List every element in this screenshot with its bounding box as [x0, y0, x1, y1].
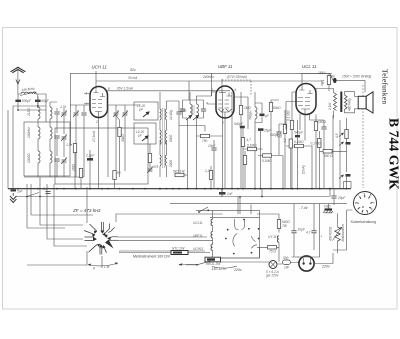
trimmer IF1a — [186, 116, 192, 121]
wire: second bottom bus — [16, 196, 329, 198]
svg-text:J-7e: J-7e — [60, 105, 66, 109]
wire: anode to output — [330, 74, 365, 93]
svg-text:L M: L M — [104, 265, 110, 269]
wire: osc coil column links — [160, 92, 167, 177]
trimmer C5 — [61, 111, 67, 117]
capacitor C18 — [255, 114, 270, 123]
capacitor C23 — [321, 127, 326, 129]
wire: R2 link — [149, 144, 151, 168]
fuse F1 — [283, 256, 291, 270]
inductor osc coil 1a — [160, 109, 161, 120]
capacitor C21 — [208, 140, 217, 189]
wire: UBF left grid — [207, 102, 216, 104]
svg-text:4: 4 — [211, 88, 213, 92]
svg-text:50kΩ: 50kΩ — [273, 106, 281, 110]
wire: second left rail — [12, 106, 14, 189]
svg-text:Entbrummer: Entbrummer — [341, 223, 345, 241]
resistor R16 heater dropper — [171, 247, 188, 255]
wire: osc core dashes — [163, 108, 165, 168]
svg-text:500µF: 500µF — [22, 99, 32, 103]
voltage selector arc right — [252, 236, 258, 248]
wire: speaker leads — [351, 92, 359, 113]
svg-text:Sockelschaltung: Sockelschaltung — [351, 220, 377, 224]
inductor L6 — [50, 151, 52, 163]
svg-text:500 Ω: 500 Ω — [324, 154, 333, 158]
capacitor C29 4.7uF — [306, 204, 323, 250]
socket pins — [357, 195, 373, 212]
wire: 30mA rail — [96, 81, 322, 86]
wire: UCH anode up to rail — [95, 71, 97, 89]
transformer secondary zigzag — [345, 95, 348, 109]
svg-text:4,7: 4,7 — [247, 138, 252, 142]
wire: C23 — [316, 120, 324, 189]
voltage selector arc left — [233, 234, 237, 247]
svg-text:2,2: 2,2 — [204, 169, 210, 173]
resistor R13 — [345, 130, 348, 139]
label: arrow under selector — [212, 266, 237, 268]
svg-text:UBF 11: UBF 11 — [218, 64, 233, 69]
tube UCH11 cathode — [95, 112, 102, 118]
switch: mains blade top — [198, 207, 209, 213]
wire: block frame inner — [55, 128, 148, 184]
tube UCH11 envelope — [90, 87, 108, 118]
capacitor C25 ground — [11, 189, 24, 193]
trimmer C9 — [61, 158, 67, 164]
svg-text:UY 11: UY 11 — [268, 235, 277, 239]
wire: switch routing lower right — [27, 251, 205, 268]
wire: R13 column — [346, 118, 348, 189]
svg-text:400-600Ω: 400-600Ω — [329, 226, 333, 241]
capacitor C16 — [180, 100, 188, 118]
svg-text:2,1W: 2,1W — [328, 102, 332, 111]
tube UCH11 grids — [92, 100, 102, 108]
capacitor C24 540pF — [270, 124, 286, 155]
wire: IF1 top tie — [183, 73, 212, 100]
wire: switch routing upper right — [116, 214, 223, 240]
wire: block bottom ties — [18, 94, 84, 177]
svg-text:220v: 220v — [233, 268, 242, 272]
resistor R1 — [118, 128, 121, 137]
inductor osc coil 2a — [160, 130, 161, 144]
svg-text:Telefunken: Telefunken — [380, 69, 389, 104]
svg-text:10µF: 10µF — [298, 228, 306, 232]
wire: transformer wiring — [316, 89, 351, 119]
node: bus dots — [101, 188, 331, 198]
svg-text:480 Wdg: 480 Wdg — [348, 98, 352, 111]
svg-text:500: 500 — [283, 256, 289, 260]
capacitor C32 540 — [294, 120, 304, 189]
capacitor C31 540pF — [234, 122, 245, 128]
wire: switch routing top — [31, 184, 93, 223]
wire: frame top — [13, 105, 46, 107]
resistor R11 500ohm — [323, 150, 333, 158]
wire: detector coil column — [255, 92, 262, 189]
inductor L2 — [38, 127, 40, 139]
inductor L4 — [50, 107, 52, 119]
capacitor C22 5nF — [330, 75, 337, 84]
svg-text:5kΩ 1W: 5kΩ 1W — [173, 170, 185, 174]
socket: Sockelschaltung circle — [354, 192, 377, 215]
svg-text:REGL 2W: REGL 2W — [206, 262, 221, 266]
resistor R10 — [314, 122, 317, 131]
wire: R6 link — [258, 156, 283, 190]
trimmer mark a — [339, 133, 344, 137]
trimmer C6 — [61, 135, 67, 141]
trimmer C575 — [147, 165, 158, 173]
inductor detector coil — [249, 107, 258, 120]
wire: osc frame upper — [134, 102, 158, 120]
svg-text:220v: 220v — [321, 265, 330, 269]
svg-text:2: 2 — [221, 121, 224, 125]
resistor R6 horizontal — [263, 154, 272, 157]
wire: R4 — [271, 100, 279, 189]
resistor R18 — [113, 171, 121, 190]
capacitor 50pF blob — [35, 99, 50, 103]
svg-text:50µF: 50µF — [41, 99, 49, 103]
resistor R21 — [241, 129, 251, 190]
resistor R22 1.1M — [277, 110, 287, 189]
resistor R26 — [311, 131, 322, 189]
resistor NTC dark 2 — [205, 257, 221, 266]
svg-text:14-40g: 14-40g — [169, 110, 173, 120]
trimmer L5-20 upper — [137, 104, 149, 117]
tube UBF11 envelope — [216, 86, 234, 118]
wire: R9 — [292, 92, 296, 189]
tube UBF11 anode — [219, 89, 232, 96]
socket pin numbers — [355, 192, 375, 216]
svg-text:B 744 GWK: B 744 GWK — [387, 118, 400, 190]
inductor IF1 primary — [190, 100, 192, 119]
svg-text:213Ω: 213Ω — [27, 108, 31, 117]
wire: AVC dashed — [222, 80, 251, 96]
wire: block frame outer — [24, 122, 70, 176]
switch: mains on/off — [26, 193, 41, 198]
svg-text:UCH11: UCH11 — [193, 247, 203, 251]
svg-text:0000: 0000 — [169, 135, 173, 142]
svg-text:575: 575 — [153, 165, 159, 169]
resistor R23 750 — [197, 134, 223, 143]
svg-text:J-7e: J-7e — [66, 143, 72, 147]
wire: 65V 1.5mA rail — [106, 90, 231, 92]
voltage selector box — [213, 217, 260, 258]
wire: plug to riser — [297, 253, 333, 264]
resistor R8 — [243, 156, 246, 165]
svg-text:0,1 MΩ: 0,1 MΩ — [287, 110, 291, 121]
wire: R1 drop — [108, 105, 120, 177]
trimmer mark b — [339, 142, 344, 146]
wire: UBF diode right — [234, 97, 248, 129]
wire: antenna coupling — [18, 94, 46, 110]
wire: IF1 to UBF grid — [207, 92, 217, 96]
wire: IF1 drops — [188, 92, 223, 189]
svg-text:VßΩ: VßΩ — [324, 205, 331, 209]
resistor R17 entbrummer — [333, 227, 343, 241]
wire: 52V supply rail — [71, 73, 331, 145]
inductor osc coil 2b — [165, 130, 166, 144]
svg-text:17,1mA: 17,1mA — [92, 131, 96, 142]
trimmer C12 — [122, 111, 128, 117]
wire: entbrummer net — [333, 210, 352, 253]
wire: coil column 2 — [50, 102, 57, 177]
svg-text:100kHz: 100kHz — [27, 127, 31, 138]
tube UBF11 grids — [218, 100, 229, 108]
svg-text:1500 + 2000 W/Wdg: 1500 + 2000 W/Wdg — [342, 75, 371, 79]
svg-text:UCL 11: UCL 11 — [302, 64, 317, 69]
svg-text:30kΩ: 30kΩ — [121, 134, 125, 142]
wire: switch routing left verticals — [40, 177, 87, 246]
trimmer C13 — [113, 111, 119, 117]
svg-text:30 mA: 30 mA — [128, 76, 137, 80]
svg-text:0000: 0000 — [169, 160, 173, 167]
svg-text:10nF: 10nF — [208, 144, 216, 148]
svg-text:UCL11: UCL11 — [193, 221, 203, 225]
svg-text:740µH: 740µH — [249, 110, 253, 120]
wire: osc frame lower — [134, 123, 156, 144]
tube UCL11 cathode — [301, 109, 310, 115]
wire: R12 link — [286, 146, 313, 189]
trimmer IF1b — [193, 116, 199, 121]
wire: trimmer row to tube — [70, 105, 90, 177]
resistor R25 2.2k — [204, 166, 213, 189]
rotary switch rotation arc — [88, 262, 118, 270]
resistor R3 — [239, 106, 242, 115]
tube UBF11 cathode — [221, 112, 229, 118]
svg-text:UBF11: UBF11 — [193, 234, 203, 238]
capacitor C27 1nF — [219, 189, 234, 197]
wire: heater chain vertical — [212, 210, 214, 258]
ground — [10, 193, 16, 203]
svg-text:540µF: 540µF — [294, 131, 304, 135]
resistor R4 — [269, 103, 272, 112]
svg-text:Meßinstrument 100 Ω/V: Meßinstrument 100 Ω/V — [133, 255, 171, 259]
svg-text:4,7: 4,7 — [306, 231, 311, 235]
trimmer mark c — [339, 175, 344, 179]
resistor R19 — [72, 164, 83, 189]
svg-text:8: 8 — [108, 87, 110, 91]
capacitor C15 2µF — [85, 150, 95, 189]
node: input junction — [17, 109, 19, 111]
wire: socket corner frame — [344, 182, 352, 189]
svg-text:240kHz: 240kHz — [202, 75, 214, 79]
wire: -7.4V bus — [170, 203, 347, 205]
wire: UCL grid left — [286, 102, 298, 130]
transformer output primary zigzag — [334, 93, 337, 111]
svg-text:0,1: 0,1 — [321, 79, 325, 84]
wire: coil column — [37, 96, 39, 177]
resistor R2 — [148, 154, 151, 163]
capacitor C4 — [54, 112, 59, 114]
tube heater UCL11 — [211, 219, 213, 225]
wire: UY11 links — [257, 214, 279, 262]
svg-text:0,1MΩ: 0,1MΩ — [262, 159, 272, 163]
svg-text:3: 3 — [86, 102, 88, 106]
svg-text:4,2: 4,2 — [283, 138, 287, 143]
resistor R20 — [73, 144, 76, 189]
wire: ground bus — [8, 188, 351, 190]
svg-text:52v: 52v — [130, 68, 136, 72]
capacitor C34 blob — [346, 174, 351, 177]
tube UCL11 grids — [298, 98, 310, 106]
antenna — [11, 67, 26, 73]
trimmer C10 — [73, 111, 79, 117]
wire: R7h link — [232, 92, 263, 189]
svg-text:6: 6 — [235, 88, 237, 92]
tube UBF11 diode plates — [219, 109, 232, 112]
capacitor C14 — [167, 101, 187, 177]
rectifier block — [323, 208, 333, 213]
transformer core bar — [340, 92, 342, 113]
plug: mains connector — [299, 256, 314, 271]
svg-text:+: + — [321, 235, 323, 239]
wire: routing box outline — [27, 184, 65, 228]
resistor R27 — [321, 74, 331, 92]
rotary switch arrowheads — [92, 231, 111, 249]
wire: selector feeds — [210, 217, 260, 258]
wire: R8 — [244, 151, 246, 189]
svg-text:150Ω: 150Ω — [318, 120, 326, 124]
inductor antenna coil 146kHz — [20, 92, 36, 96]
inductor L3 — [38, 151, 40, 163]
svg-text:0,1 MΩ: 0,1 MΩ — [311, 142, 322, 146]
tube UCH11 anode — [94, 90, 106, 97]
wire: mains feed arrow — [179, 263, 198, 266]
svg-text:(07V+330mA): (07V+330mA) — [227, 75, 247, 79]
svg-text:65V 1,5mA: 65V 1,5mA — [117, 87, 133, 91]
svg-text:80: 80 — [117, 171, 121, 175]
voltage selector contact U — [235, 219, 245, 230]
capacitor C19 25uF — [258, 128, 272, 189]
resistor R15 75ohm — [268, 246, 277, 254]
wire: UCH cathode down — [98, 118, 100, 189]
wire: right column 333 — [333, 115, 340, 189]
inductor osc coil 1b — [165, 109, 166, 120]
wire: right psu verticals — [292, 204, 329, 257]
resistor R28 — [283, 138, 292, 188]
svg-text:750: 750 — [202, 139, 208, 143]
svg-text:ger 220v: ger 220v — [266, 273, 279, 277]
svg-text:ZF = 473 kHz: ZF = 473 kHz — [72, 208, 101, 213]
inductor L1 — [38, 107, 40, 119]
capacitor C28 10uF — [291, 204, 305, 257]
svg-text:2: 2 — [95, 120, 98, 124]
wire: R10 — [315, 115, 317, 190]
wire: IF1 core — [193, 105, 194, 115]
wire: left rail — [7, 110, 9, 189]
capacitor C26 — [43, 187, 51, 194]
rotary switch hub arms — [84, 222, 118, 255]
inductor IF1 secondary — [197, 100, 199, 119]
wire: R11 links — [320, 150, 347, 152]
svg-text:185V: 185V — [318, 71, 326, 75]
wire: lamp row — [221, 262, 300, 264]
capacitor 500pF blob — [15, 99, 32, 103]
tube heater UCH11 — [211, 244, 213, 250]
wire: antenna lead-in — [17, 69, 19, 95]
capacitor C8 — [54, 159, 59, 161]
resistor R7h horizontal — [248, 147, 257, 150]
tube heater UBF11 — [211, 232, 213, 238]
wire: R3 drop — [240, 92, 242, 189]
capacitor C17 — [197, 100, 207, 118]
svg-text:1000Ω: 1000Ω — [27, 153, 31, 163]
svg-text:0,1MΩ: 0,1MΩ — [294, 140, 304, 144]
wire: dashed dial line — [362, 85, 364, 188]
svg-text:75 Ω: 75 Ω — [269, 249, 276, 253]
wire: bus junction drops — [222, 189, 330, 214]
svg-text:(2mA): (2mA) — [302, 165, 306, 174]
resistor R12 — [295, 144, 304, 147]
lamp: dial light — [269, 261, 277, 269]
tube heater UY11 — [277, 236, 279, 242]
voltage selector contacts — [225, 219, 260, 255]
capacitor C33 blob — [346, 142, 351, 145]
svg-text:540µF: 540µF — [270, 133, 280, 137]
svg-text:0,1MΩ: 0,1MΩ — [247, 144, 257, 148]
trimmer L5-20 lower — [136, 130, 148, 141]
inductor L5 — [50, 127, 52, 139]
wire: trimmer links — [57, 108, 64, 177]
inductor osc coil 3b — [165, 155, 166, 166]
svg-text:NTC 2W: NTC 2W — [172, 247, 185, 251]
wire: selector risers — [238, 197, 251, 215]
speaker — [358, 92, 373, 113]
resistor R14 640ohm 7W — [277, 214, 290, 233]
wire: UCL anode to top — [302, 74, 332, 87]
capacitor C7 — [54, 136, 59, 138]
node: antenna arrow — [16, 80, 20, 85]
svg-text:- 7,4v: - 7,4v — [299, 206, 308, 210]
inductor osc coil 3a — [160, 155, 161, 166]
resistor R9 — [290, 121, 293, 130]
wire: UBF anode top — [221, 79, 223, 89]
wire: trimmer drops — [108, 105, 140, 177]
svg-text:4,5: 4,5 — [335, 133, 339, 138]
rotary switch solid sector — [105, 240, 114, 249]
tube UCL11 anode — [300, 87, 313, 94]
wire: UCL cathode down — [304, 115, 306, 141]
svg-text:540µF: 540µF — [234, 122, 244, 126]
capacitor C11 — [81, 113, 86, 115]
svg-text:UCH 11: UCH 11 — [92, 65, 108, 70]
wire: UCL pin drops — [300, 114, 316, 130]
wire: UBF cathode down — [224, 118, 226, 189]
wire: mid horizontal 125 — [179, 126, 205, 132]
switch: heater string — [186, 258, 210, 265]
resistor R24 5k 1W — [173, 170, 188, 177]
wire: UCH grid1 left — [84, 94, 90, 104]
node: ground bus junctions — [17, 188, 347, 190]
svg-text:1MΩ: 1MΩ — [244, 106, 251, 110]
wire: selector top feed line — [196, 210, 260, 217]
tube UCL11 envelope — [296, 84, 316, 115]
capacitor C30 — [331, 189, 346, 205]
svg-text:20µF: 20µF — [337, 196, 346, 200]
wire: R16 row — [119, 252, 210, 254]
